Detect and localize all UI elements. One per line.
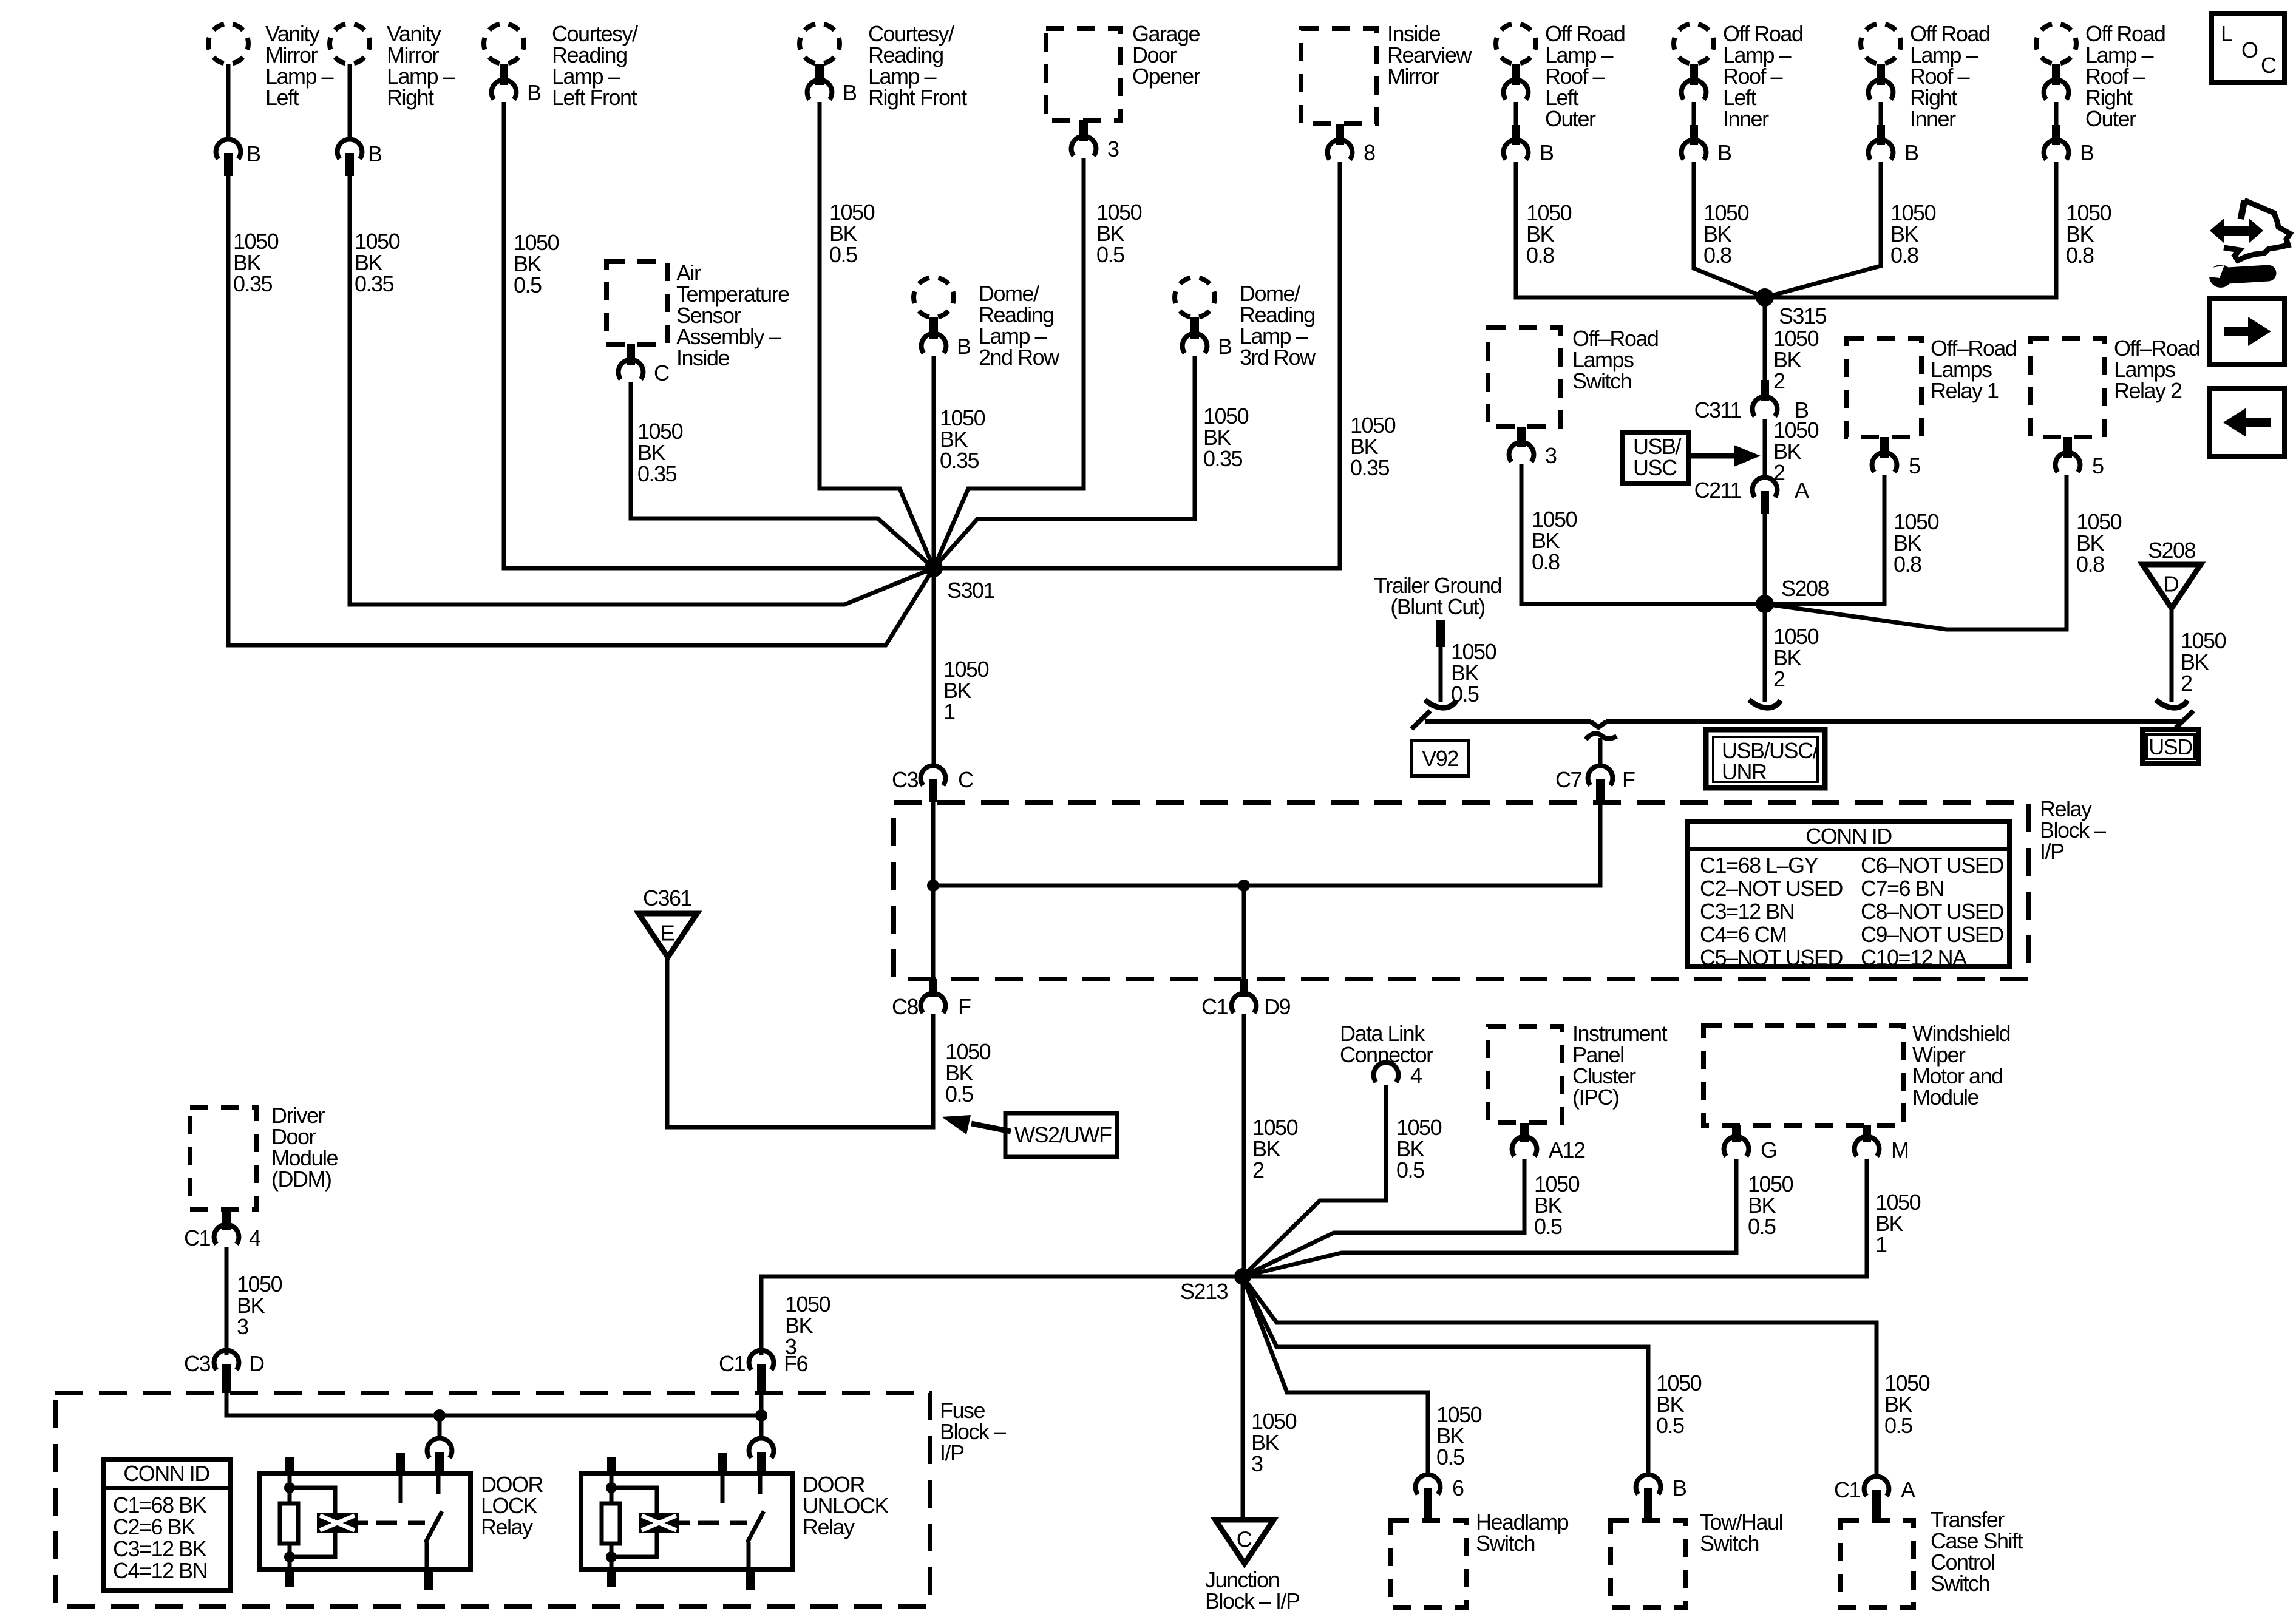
- component: Windshield Wiper Motor and Module: [1703, 1025, 1904, 1125]
- svg-text:C2=6 BK: C2=6 BK: [113, 1514, 195, 1539]
- switch blade (relay): [426, 1511, 442, 1542]
- svg-text:5: 5: [1909, 453, 1920, 478]
- wire: vanity right to S301: [350, 176, 934, 605]
- lamp: Off Road Lamp Left: [1496, 24, 1536, 64]
- svg-text:0.35: 0.35: [355, 271, 394, 296]
- component: Air Temperature Sensor Assembly - Inside: [606, 262, 667, 344]
- arrow: WS2/UWF callout arrow: [971, 1124, 1011, 1131]
- svg-text:0.5: 0.5: [1396, 1158, 1424, 1182]
- component: Garage Door Opener: [1046, 29, 1121, 120]
- svg-text:Opener: Opener: [1132, 64, 1201, 89]
- pin: off road lamp harness pin: [1690, 125, 1698, 145]
- wire: lamp to connector B: [1692, 102, 1696, 125]
- svg-text:Left: Left: [265, 85, 299, 110]
- svg-text:0.5: 0.5: [1096, 242, 1124, 267]
- connector 6 (headlamp switch): [1416, 1475, 1441, 1494]
- ground bus wire: [1425, 719, 1591, 724]
- net label USD: [2142, 730, 2199, 764]
- lamp: Dome/Reading Lamp - 3rd Row: [1175, 277, 1215, 317]
- svg-text:Block – I/P: Block – I/P: [1205, 1588, 1300, 1613]
- callout box WS2/UWF: [1005, 1113, 1117, 1157]
- pin: wiper module pin G: [1732, 1125, 1741, 1142]
- wire: S208 to ground bus (1050 BK 2): [1763, 604, 1767, 702]
- svg-text:CONN ID: CONN ID: [1805, 824, 1892, 849]
- wire: S213 to junction block (1050 BK 3): [1241, 1276, 1245, 1520]
- svg-text:C8: C8: [892, 994, 918, 1019]
- svg-text:CONN ID: CONN ID: [123, 1461, 209, 1486]
- svg-text:C5–NOT USED: C5–NOT USED: [1700, 945, 1843, 970]
- pin: tow/haul switch pin B: [1644, 1488, 1652, 1520]
- component: Off-Road Lamps Relay 2: [2031, 338, 2105, 437]
- svg-text:C361: C361: [643, 886, 692, 910]
- connector at lamp: [1682, 80, 1707, 100]
- svg-text:S301: S301: [947, 578, 995, 603]
- pin: off road lamp harness pin: [1512, 125, 1520, 145]
- wire: switch NO contact lead: [436, 1473, 441, 1494]
- svg-text:C: C: [2261, 53, 2276, 78]
- connector B: [1682, 140, 1707, 160]
- wire: node to door unlock relay NO pin: [759, 1415, 764, 1437]
- junction: coil node bottom: [284, 1551, 295, 1562]
- component: Off-Road Lamps Relay 1: [1846, 338, 1921, 437]
- pin: door lock relay NO pin (top): [435, 1452, 444, 1473]
- svg-text:0.35: 0.35: [1203, 446, 1243, 471]
- svg-text:0.8: 0.8: [2066, 243, 2094, 268]
- connector at lamp: [2044, 80, 2069, 100]
- switch blade (relay): [747, 1511, 764, 1542]
- svg-text:USC: USC: [1633, 455, 1677, 480]
- svg-text:0.35: 0.35: [637, 461, 677, 486]
- pin: relay coil pin (top): [285, 1457, 294, 1473]
- svg-text:Relay: Relay: [481, 1514, 533, 1539]
- svg-text:Right Front: Right Front: [868, 85, 967, 110]
- wire: coil branch: [611, 1488, 657, 1513]
- wire: garage door opener to S301: [934, 158, 1084, 568]
- connector B: [2044, 140, 2069, 160]
- svg-text:Switch: Switch: [1476, 1531, 1535, 1556]
- wire: relay 2 to S208 (1050 BK 0.8): [1765, 475, 2067, 629]
- svg-text:C1: C1: [184, 1225, 210, 1250]
- pin: headlamp switch pin 6: [1424, 1488, 1432, 1520]
- junction: relay block internal node 1: [927, 880, 939, 892]
- svg-text:A: A: [1901, 1477, 1915, 1502]
- connector C211 cavity A: [1753, 478, 1778, 497]
- pin: dome 2nd row pin: [929, 317, 938, 339]
- connector B: [1504, 140, 1529, 160]
- svg-text:C1=68 L–GY: C1=68 L–GY: [1700, 853, 1819, 878]
- wire: C3 pin into relay block: [931, 802, 936, 886]
- svg-text:0.5: 0.5: [1436, 1445, 1464, 1470]
- wire: off-road switch to S208 (1050 BK 0.8): [1521, 464, 1765, 604]
- wire: C1 F6 into fuse block: [759, 1393, 764, 1415]
- coil (relay solenoid): [317, 1513, 358, 1533]
- wire: switch output lead: [747, 1542, 751, 1570]
- svg-text:(IPC): (IPC): [1572, 1085, 1619, 1110]
- wire: air temp sensor to S301: [631, 382, 934, 568]
- wire: lamp to connector B: [1514, 102, 1518, 125]
- svg-text:C3=12 BN: C3=12 BN: [1700, 899, 1794, 924]
- lamp: Courtesy/Reading Lamp - Right Front: [800, 24, 840, 64]
- connector C3 cavity C (relay block top): [921, 766, 946, 785]
- ground attach hook (S208 lead): [1749, 700, 1781, 708]
- splice S208: [1756, 595, 1774, 613]
- svg-text:B: B: [527, 80, 541, 105]
- svg-text:(Blunt Cut): (Blunt Cut): [1390, 594, 1485, 619]
- pin: dome 3rd row pin: [1190, 317, 1199, 339]
- svg-text:0.8: 0.8: [1890, 243, 1918, 268]
- connector 3 (off-road lamps switch): [1509, 442, 1534, 462]
- connector at lamp: [1869, 80, 1894, 100]
- svg-text:8: 8: [1364, 140, 1375, 165]
- connector B (dome 2nd row): [922, 334, 946, 353]
- svg-text:0.5: 0.5: [1656, 1413, 1684, 1438]
- svg-text:B: B: [1540, 140, 1554, 165]
- svg-text:6: 6: [1452, 1476, 1464, 1500]
- svg-text:F: F: [1622, 767, 1635, 792]
- svg-text:C9–NOT USED: C9–NOT USED: [1861, 922, 2003, 947]
- svg-text:B: B: [1904, 140, 1918, 165]
- junction: coil node bottom: [606, 1551, 617, 1562]
- component: Tow/Haul Switch: [1611, 1520, 1685, 1607]
- svg-text:C1: C1: [1834, 1477, 1860, 1502]
- lamp: Courtesy/Reading Lamp - Left Front: [484, 24, 524, 64]
- connector 4 (data link connector): [1374, 1063, 1399, 1082]
- svg-text:0.5: 0.5: [945, 1082, 973, 1107]
- svg-text:C1=68 BK: C1=68 BK: [113, 1493, 207, 1517]
- wire: node1 to C8 F: [931, 886, 936, 979]
- connector at door lock relay pin: [427, 1439, 452, 1458]
- svg-text:0.5: 0.5: [514, 273, 542, 297]
- pin: off road lamp harness pin: [2052, 125, 2060, 145]
- wire: C7 into relay block: [933, 803, 1600, 886]
- pin: C311 pin B: [1761, 380, 1769, 401]
- svg-text:I/P: I/P: [2040, 839, 2064, 864]
- svg-text:1: 1: [943, 699, 955, 724]
- svg-text:1: 1: [1875, 1232, 1887, 1257]
- svg-text:O: O: [2241, 38, 2258, 63]
- wire: DDM to C3 D (1050 BK 3): [225, 1247, 229, 1355]
- wire: DLC to S213 (1050 BK 0.5): [1243, 1085, 1386, 1276]
- svg-text:3: 3: [1251, 1451, 1263, 1476]
- connector G (wiper module): [1724, 1137, 1749, 1156]
- net label V92: [1411, 741, 1469, 776]
- svg-text:Module: Module: [1912, 1085, 1979, 1110]
- connector B (tow/haul switch): [1636, 1475, 1661, 1494]
- svg-text:UNR: UNR: [1722, 759, 1767, 784]
- pin: off road lamp pin: [2052, 64, 2060, 85]
- svg-text:G: G: [1761, 1137, 1777, 1162]
- wire: relay 1 to S208 (1050 BK 0.8): [1765, 475, 1884, 604]
- svg-text:C311: C311: [1694, 398, 1742, 422]
- pin: wiper module pin M: [1863, 1125, 1871, 1142]
- splice hook at bus (C7 lead): [1586, 733, 1617, 739]
- svg-text:E: E: [661, 921, 674, 946]
- wire: relay block internal bus: [933, 884, 1600, 888]
- wire: relay coil vertical: [288, 1473, 292, 1570]
- connector B (vanity right): [338, 140, 362, 159]
- svg-text:F: F: [958, 994, 971, 1019]
- wire: switch NO contact lead: [758, 1473, 763, 1494]
- wire: S208 D to ground bus (1050 BK 2): [2170, 608, 2174, 702]
- svg-text:B: B: [1717, 140, 1731, 165]
- pin: off road lamp harness pin: [1877, 125, 1885, 145]
- svg-text:0.8: 0.8: [1894, 552, 1921, 577]
- svg-text:F6: F6: [784, 1351, 807, 1376]
- ground attach hook (USD lead): [2156, 700, 2187, 708]
- pin: relay switch output pin (bottom): [746, 1570, 755, 1590]
- component: Off-Road Lamps Switch: [1488, 328, 1560, 427]
- pin: C1 pin D9: [1240, 979, 1248, 997]
- connector C8 cavity F: [921, 994, 946, 1013]
- legend: previous page arrow box: [2210, 388, 2284, 456]
- svg-text:D9: D9: [1264, 994, 1290, 1019]
- wire: off road LI to S315: [1694, 162, 1765, 297]
- wire: S301 to C3 (1050 BK 1): [932, 568, 936, 764]
- pin: transfer case switch pin A: [1872, 1490, 1881, 1520]
- pin: off road lamp pin: [1690, 64, 1698, 85]
- component: Inside Rearview Mirror: [1301, 29, 1377, 124]
- blunt cut stub (trailer ground): [1436, 620, 1445, 647]
- pin: relay coil pin (bottom): [607, 1570, 616, 1587]
- svg-text:B: B: [957, 334, 971, 359]
- svg-text:C4=12 BN: C4=12 BN: [113, 1558, 207, 1583]
- wire: S213 to transfer case switch (1050 BK 0.5): [1243, 1276, 1877, 1475]
- wire: S315 to C311 (1050 BK 2): [1763, 297, 1767, 380]
- svg-text:B: B: [246, 141, 260, 166]
- wire: lamp to connector B: [2054, 102, 2059, 125]
- connector at lamp: [1504, 80, 1529, 100]
- ground triangle C - Junction Block I/P: [1215, 1520, 1274, 1564]
- svg-text:C7=6 BN: C7=6 BN: [1861, 876, 1944, 901]
- pin: relay switch common pin (top): [396, 1453, 405, 1473]
- CONN ID table (fuse block): [103, 1459, 230, 1590]
- component: Fuse Block - I/P (dashed): [55, 1393, 930, 1607]
- pin: air temp sensor pin: [627, 344, 635, 365]
- svg-text:C1: C1: [1201, 994, 1228, 1019]
- pin: off road lamp pin: [1877, 64, 1885, 85]
- svg-text:C211: C211: [1694, 478, 1742, 503]
- connector at door unlock relay pin: [749, 1439, 774, 1458]
- lamp: Off Road Lamp Right: [1861, 24, 1901, 64]
- connector C1 cavity 4 (DDM): [214, 1225, 239, 1244]
- wire: off road RI to S315: [1765, 162, 1881, 297]
- junction: fuse block node over door unlock relay: [755, 1409, 767, 1422]
- svg-text:Mirror: Mirror: [1387, 64, 1439, 89]
- svg-text:C1: C1: [719, 1351, 745, 1376]
- connector C1 cavity F6: [749, 1351, 774, 1370]
- legend: adjust/tools icon: [2221, 226, 2252, 236]
- wire: vanity left to S301: [228, 176, 934, 645]
- wire: switch output lead: [425, 1542, 429, 1570]
- pin: C3 pin D: [222, 1364, 231, 1393]
- svg-text:C10=12 NA: C10=12 NA: [1861, 945, 1967, 970]
- dashed actuator link: [698, 1521, 747, 1525]
- bus end tick left: [1411, 711, 1430, 729]
- svg-text:S213: S213: [1180, 1279, 1228, 1304]
- splice S315: [1756, 288, 1774, 307]
- CONN ID table (relay block): [1688, 822, 2009, 966]
- wire: relay coil vertical: [610, 1473, 614, 1570]
- component: Headlamp Switch: [1391, 1520, 1466, 1607]
- connector C7 cavity F: [1588, 766, 1613, 785]
- coil (relay solenoid): [639, 1513, 679, 1533]
- wire: vanity left lamp to connector B: [226, 64, 231, 141]
- svg-text:0.35: 0.35: [1350, 455, 1390, 480]
- connector 3 (garage door opener): [1072, 137, 1096, 156]
- wire: coil branch: [290, 1488, 335, 1513]
- svg-text:B: B: [2080, 140, 2094, 165]
- lamp: Dome/Reading Lamp - 2nd Row: [914, 277, 954, 317]
- wire: S213 to tow/haul switch (1050 BK 0.5): [1243, 1276, 1648, 1473]
- pin: IPC pin A12: [1520, 1123, 1529, 1142]
- wire: vanity right lamp to connector B: [348, 64, 352, 141]
- component: Driver Door Module (DDM): [190, 1108, 257, 1209]
- pin: C7 pin F: [1596, 779, 1605, 803]
- svg-text:B: B: [1218, 334, 1232, 359]
- dashed actuator link: [376, 1521, 425, 1525]
- wire: dome 2nd row to S301: [932, 356, 936, 568]
- legend: LOC box: [2212, 13, 2284, 83]
- wire: trailer ground lead (1050 BK 0.5): [1439, 647, 1443, 702]
- svg-text:3: 3: [1107, 137, 1119, 161]
- wire: wiper G to S213 (1050 BK 0.5): [1243, 1159, 1736, 1276]
- svg-text:3: 3: [1545, 443, 1557, 468]
- pin: relay 1 pin 5: [1880, 437, 1889, 458]
- svg-text:I/P: I/P: [940, 1440, 964, 1465]
- component: Instrument Panel Cluster (IPC): [1488, 1026, 1562, 1123]
- svg-text:Inside: Inside: [676, 345, 730, 370]
- pin: C211 pin A: [1761, 491, 1769, 514]
- junction: coil node top: [284, 1482, 295, 1493]
- svg-text:B: B: [368, 141, 382, 166]
- wire: node2 to C1 D9: [1242, 886, 1246, 979]
- svg-text:0.8: 0.8: [1526, 243, 1554, 268]
- svg-text:D: D: [2164, 572, 2179, 597]
- wire: off road LO to S315: [1516, 162, 1765, 297]
- wire: switch common lead: [399, 1473, 403, 1503]
- svg-text:5: 5: [2092, 453, 2104, 478]
- svg-text:WS2/UWF: WS2/UWF: [1014, 1122, 1112, 1147]
- wire: off road RO to S315: [1765, 162, 2056, 297]
- lamp: Vanity Mirror Lamp - Right: [330, 24, 370, 64]
- svg-text:Switch: Switch: [1572, 368, 1631, 393]
- svg-text:2: 2: [1773, 368, 1785, 393]
- svg-text:USD: USD: [2148, 734, 2192, 759]
- svg-text:C: C: [958, 767, 973, 792]
- connector 8 (inside rearview mirror): [1328, 140, 1353, 160]
- wire: C3 D into fuse block: [226, 1393, 761, 1415]
- svg-text:Left Front: Left Front: [552, 85, 637, 110]
- svg-text:S208: S208: [2148, 538, 2196, 563]
- svg-text:Relay: Relay: [803, 1514, 855, 1539]
- svg-text:3rd Row: 3rd Row: [1240, 345, 1316, 370]
- component: Relay Block - I/P (dashed): [894, 802, 2028, 979]
- wire: courtesy LF to S301: [504, 102, 934, 568]
- lamp: Vanity Mirror Lamp - Left: [208, 24, 248, 64]
- wire: IPC A12 to S213 (1050 BK 0.5): [1243, 1159, 1524, 1276]
- lamp: Off Road Lamp Left: [1674, 24, 1714, 64]
- svg-text:C2–NOT USED: C2–NOT USED: [1700, 876, 1843, 901]
- pin: courtesy RF lamp pin: [815, 64, 824, 85]
- connector 5 (relay 1): [1872, 453, 1897, 472]
- connector B: [1869, 140, 1894, 160]
- pin: inside rearview mirror pin: [1336, 124, 1344, 145]
- svg-text:0.8: 0.8: [2076, 552, 2104, 577]
- callout box USB/USC: [1622, 433, 1689, 484]
- connector B (dome 3rd row): [1183, 334, 1207, 353]
- component: Transfer Case Shift Control Switch: [1841, 1520, 1914, 1607]
- wire: C311 to C211 (1050 BK 2): [1763, 419, 1767, 475]
- svg-text:S208: S208: [1781, 576, 1829, 601]
- splice S213: [1234, 1268, 1251, 1285]
- svg-text:Switch: Switch: [1700, 1531, 1759, 1556]
- svg-text:S315: S315: [1779, 303, 1827, 328]
- splice S301: [925, 559, 943, 577]
- pin: garage door opener pin: [1079, 120, 1088, 141]
- connector C (air temp sensor): [619, 360, 644, 379]
- legend: next page arrow box: [2210, 299, 2284, 365]
- svg-text:Switch: Switch: [1931, 1571, 1989, 1596]
- svg-text:L: L: [2221, 21, 2232, 46]
- svg-text:0.35: 0.35: [940, 448, 979, 473]
- connector A12 (IPC): [1512, 1137, 1537, 1156]
- svg-text:A12: A12: [1549, 1137, 1585, 1162]
- connector C311 cavity B: [1753, 397, 1778, 416]
- junction: fuse block node over door lock relay: [433, 1409, 446, 1422]
- svg-text:C8–NOT USED: C8–NOT USED: [1861, 899, 2003, 924]
- svg-text:B: B: [843, 80, 857, 105]
- pin: door unlock relay NO pin (top): [757, 1452, 766, 1473]
- svg-text:2: 2: [2181, 671, 2192, 696]
- connector 5 (relay 2): [2056, 453, 2080, 472]
- svg-text:0.5: 0.5: [1884, 1413, 1912, 1438]
- wire: lamp to connector B: [1879, 102, 1883, 125]
- wire: C8 to C361 (1050 BK 0.5): [667, 957, 933, 1127]
- svg-text:Right: Right: [387, 85, 434, 110]
- svg-text:V92: V92: [1422, 746, 1458, 771]
- pin: off-road lamps switch pin: [1517, 427, 1526, 447]
- svg-text:M: M: [1891, 1137, 1909, 1162]
- wire: S213 to C1 F6 (1050 BK 3): [761, 1276, 1243, 1355]
- connector B (vanity left): [216, 140, 241, 159]
- lamp: Off Road Lamp Right: [2036, 24, 2076, 64]
- junction: coil node top: [606, 1482, 617, 1493]
- svg-text:Relay 2: Relay 2: [2114, 378, 2182, 403]
- connector M (wiper module): [1855, 1137, 1880, 1156]
- pin: C8 pin F: [929, 979, 937, 997]
- wire: bus to C7: [1598, 738, 1603, 764]
- wire: S213 to headlamp switch (1050 BK 0.5): [1243, 1276, 1428, 1473]
- relay: DOOR UNLOCK relay box: [581, 1473, 792, 1570]
- svg-text:4: 4: [249, 1225, 260, 1250]
- relay: DOOR LOCK relay box: [259, 1473, 470, 1570]
- wire: inside rearview mirror to S301: [934, 162, 1340, 568]
- svg-text:0.35: 0.35: [233, 271, 273, 296]
- junction: relay block internal node 2: [1238, 880, 1250, 892]
- wire: coil actuator stub: [358, 1521, 368, 1525]
- net label USB/USC/UNR: [1706, 730, 1825, 788]
- pin: relay switch common pin (top): [718, 1453, 727, 1473]
- bus end tick right: [2176, 711, 2193, 728]
- pin: relay coil pin (bottom): [285, 1570, 294, 1587]
- connector C3 cavity D (fuse block): [214, 1351, 239, 1370]
- svg-text:C: C: [654, 361, 669, 385]
- pin: courtesy LF lamp pin: [500, 64, 508, 85]
- svg-text:2nd Row: 2nd Row: [979, 345, 1060, 370]
- svg-text:C3: C3: [184, 1351, 210, 1376]
- pin: relay coil pin (top): [607, 1457, 616, 1473]
- pin: C3 pin C: [929, 779, 937, 802]
